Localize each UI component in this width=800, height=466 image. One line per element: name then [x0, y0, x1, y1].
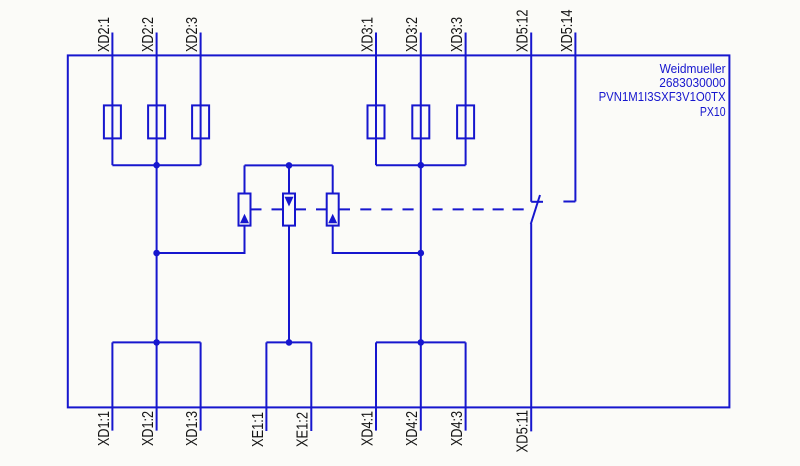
junction XD1 bar — [153, 339, 160, 346]
wire arrester G1 bottom lead — [157, 226, 245, 253]
svg-text:XD3:2: XD3:2 — [404, 17, 421, 52]
arrester G2 arrow (down) — [285, 197, 294, 207]
svg-text:XE1:2: XE1:2 — [295, 412, 312, 447]
svg-text:XD5:14: XD5:14 — [559, 9, 576, 52]
surge arrester G3 body — [327, 194, 339, 226]
wire arrester G3 bottom lead — [333, 226, 421, 253]
fuse F4 body — [368, 105, 385, 138]
fuse F1 body — [104, 105, 121, 138]
fuse F5 through-wire — [420, 105, 422, 165]
arrester G1 arrow (up) — [240, 214, 249, 224]
fuse F2 body — [148, 105, 165, 138]
switch S1 fixed contact tick (XD5:12) — [531, 201, 543, 203]
arrester G3 arrow (up) — [328, 214, 337, 224]
svg-text:PX10: PX10 — [700, 104, 726, 119]
XD4 group bar — [376, 341, 466, 343]
surge arrester G1 body — [239, 194, 251, 226]
fuse F1 through-wire — [111, 105, 113, 165]
wire XD3:1 column (x=376) — [375, 33, 377, 106]
wire right phase drop junction to XD4 bar — [420, 253, 422, 342]
junction right phase / G3 — [418, 250, 425, 257]
device outline border — [68, 55, 730, 407]
trigger dashed link G2 to G3 — [295, 208, 327, 210]
svg-text:XD4:2: XD4:2 — [404, 411, 421, 446]
svg-text:XD1:3: XD1:3 — [184, 411, 201, 446]
wire XD2:1 column (x=112.4) — [111, 33, 113, 106]
trigger dashed link G1 to G2 — [251, 208, 284, 210]
wire arrester top bus — [245, 164, 333, 166]
wire XD4:3 column — [465, 342, 467, 430]
wire XD5:11 riser — [530, 224, 532, 432]
fuse F4 through-wire — [375, 105, 377, 165]
svg-text:XD5:11: XD5:11 — [515, 410, 532, 453]
wire XD2:3 column (x=200.6) — [200, 33, 202, 106]
fuse F6 body — [457, 105, 474, 138]
fuse F6 through-wire — [465, 105, 467, 165]
svg-text:XD1:2: XD1:2 — [140, 411, 157, 446]
wire arrester G3 top lead — [332, 165, 334, 193]
svg-text:XD2:2: XD2:2 — [140, 17, 157, 52]
wire arrester G1 top lead — [244, 165, 246, 193]
junction XD4 bar — [418, 339, 425, 346]
svg-text:XE1:1: XE1:1 — [250, 412, 267, 447]
wire left phase drop x=156.6 bus to junction — [156, 165, 158, 253]
wire right phase drop x=420.8 bus to junction — [420, 165, 422, 253]
trigger dashed link G3 to switch — [339, 208, 524, 210]
wire XD1:2 column — [156, 342, 158, 430]
junction left phase / G1 — [153, 250, 160, 257]
wire left bus bar — [112, 164, 200, 166]
switch S1 blade — [531, 195, 540, 224]
svg-text:XD3:1: XD3:1 — [359, 17, 376, 52]
wire XE1:1 column — [265, 342, 267, 431]
wire XD1:1 column — [111, 342, 113, 430]
wire XD1:3 column — [200, 342, 202, 430]
svg-text:XD3:3: XD3:3 — [449, 17, 466, 52]
svg-text:XD2:1: XD2:1 — [96, 17, 113, 52]
wire XE1:2 column — [310, 342, 312, 431]
wire XD3:2 column (x=420.8) — [420, 33, 422, 106]
XD1 group bar — [112, 341, 200, 343]
fuse F3 through-wire — [200, 105, 202, 165]
svg-text:XD4:1: XD4:1 — [359, 411, 376, 446]
switch S1 fixed contact tick (XD5:14) — [563, 201, 575, 203]
surge arrester G2 body — [283, 194, 295, 226]
fuse F5 body — [412, 105, 429, 138]
junction right bus / XD3:2 — [418, 162, 425, 169]
svg-text:PVN1M1I3SXF3V1O0TX: PVN1M1I3SXF3V1O0TX — [599, 89, 726, 104]
wire XD2:2 column (x=156.6) — [156, 33, 158, 106]
junction arrester bus / G2 — [286, 162, 293, 169]
wire arrester G2 top lead — [288, 165, 290, 193]
XE1 group bar — [266, 341, 311, 343]
wire XD5:14 drop — [574, 33, 576, 202]
svg-text:XD5:12: XD5:12 — [515, 10, 532, 53]
wire XD4:1 column — [375, 342, 377, 430]
wire left phase drop junction to XD1 bar — [156, 253, 158, 342]
wire right bus bar — [376, 164, 466, 166]
fuse F2 through-wire — [156, 105, 158, 165]
junction left bus / XD2:2 — [153, 162, 160, 169]
fuse F3 body — [192, 105, 209, 138]
svg-text:Weidmueller: Weidmueller — [660, 61, 727, 76]
svg-text:XD2:3: XD2:3 — [184, 17, 201, 52]
wire arrester G2 bottom lead to XE bar — [288, 226, 290, 343]
svg-text:XD4:3: XD4:3 — [449, 411, 466, 446]
svg-text:XD1:1: XD1:1 — [96, 411, 113, 446]
svg-text:2683030000: 2683030000 — [659, 75, 725, 90]
wire XD5:12 drop — [530, 33, 532, 202]
junction XE1 bar — [286, 339, 293, 346]
wire XD3:3 column (x=465.6) — [465, 33, 467, 106]
wire XD4:2 column — [420, 342, 422, 430]
